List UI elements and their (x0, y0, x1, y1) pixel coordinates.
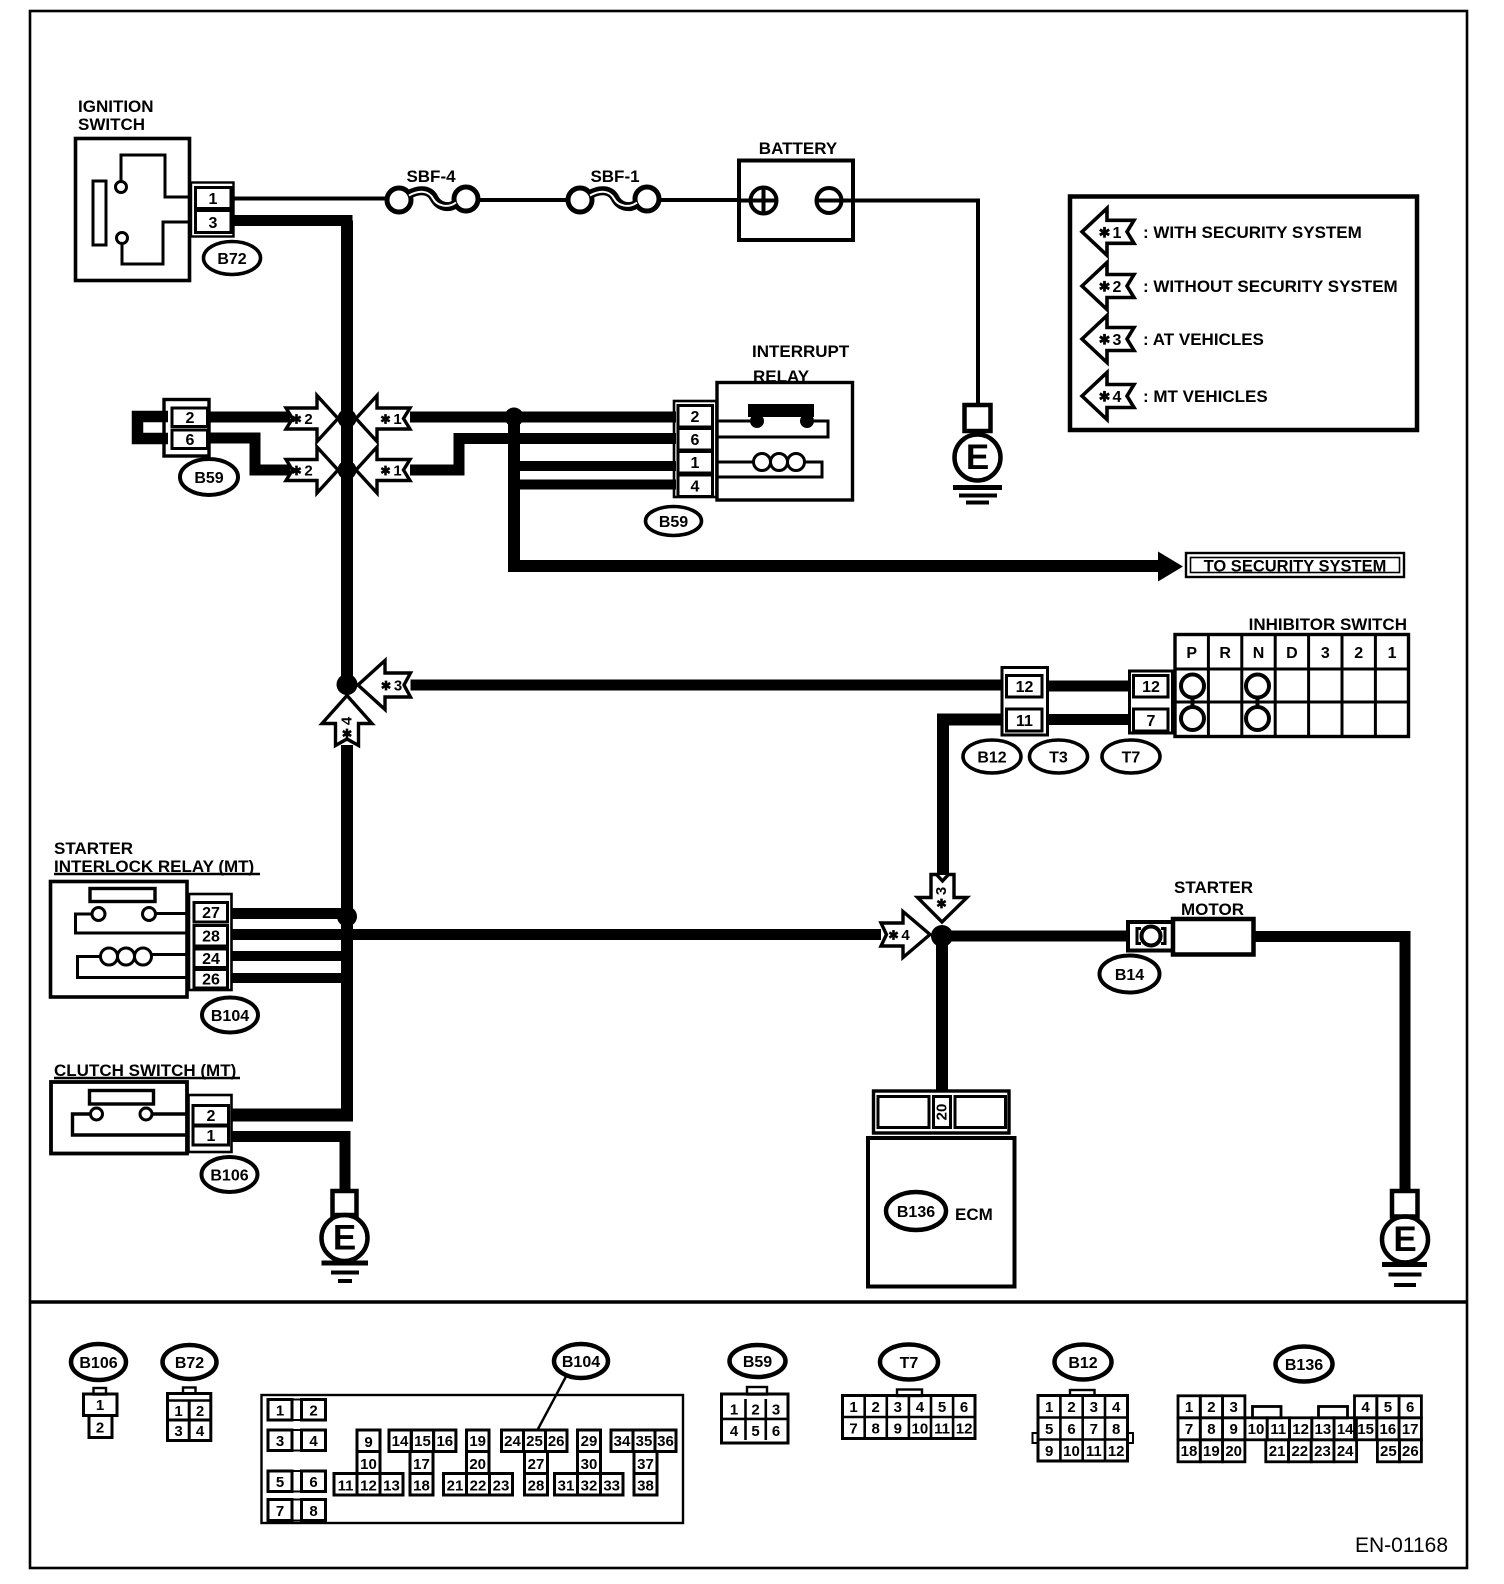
svg-text:2: 2 (1207, 1399, 1215, 1416)
B104 pins 5-6 (268, 1471, 326, 1492)
svg-text:11: 11 (1086, 1443, 1102, 1460)
svg-text:29: 29 (581, 1433, 598, 1450)
wire junction to starter motor (942, 931, 1128, 942)
svg-text:7: 7 (276, 1503, 284, 1520)
svg-text:B72: B72 (175, 1355, 204, 1372)
inhibitor contacts N column (1246, 675, 1269, 731)
svg-text:14: 14 (392, 1433, 409, 1450)
svg-text:4: 4 (1112, 1399, 1121, 1416)
svg-text:35: 35 (636, 1433, 653, 1450)
arrow *3 (at junction) (358, 661, 411, 710)
arrow *2 (lower) (286, 447, 338, 493)
svg-text:3: 3 (174, 1423, 182, 1440)
svg-text:31: 31 (558, 1478, 575, 1495)
svg-text:10: 10 (360, 1456, 377, 1473)
B106 oval (bottom) (71, 1344, 126, 1380)
B59 oval (interrupt relay) (646, 507, 702, 536)
B104 oval (202, 998, 258, 1033)
wire pin27 to main vertical (232, 908, 348, 919)
B104 cluster 14-18 (389, 1430, 456, 1495)
svg-text:E: E (1393, 1220, 1416, 1259)
svg-text:: WITHOUT SECURITY SYSTEM: : WITHOUT SECURITY SYSTEM (1143, 277, 1398, 296)
svg-text:13: 13 (1315, 1421, 1332, 1438)
wire to relay pin4 (514, 480, 676, 490)
wire ignition pin1 to fuse SBF-4 (234, 197, 389, 201)
junction node at security branch (505, 408, 524, 427)
svg-text:MOTOR: MOTOR (1181, 900, 1244, 919)
svg-text:EN-01168: EN-01168 (1355, 1534, 1448, 1557)
svg-text:B104: B104 (211, 1008, 249, 1025)
wire security branch vertical (508, 417, 520, 566)
arrow *1 (upper) (356, 396, 410, 442)
connector B59 loop stub (138, 417, 169, 439)
svg-text:12: 12 (360, 1478, 377, 1495)
svg-text:1: 1 (1388, 645, 1397, 662)
svg-text:1: 1 (691, 455, 700, 472)
svg-text:12: 12 (1016, 679, 1034, 696)
svg-text:14: 14 (1337, 1421, 1354, 1438)
svg-text:6: 6 (772, 1423, 780, 1440)
svg-text:3: 3 (1230, 1399, 1238, 1416)
B136 oval (886, 1192, 946, 1230)
svg-text:10: 10 (912, 1421, 929, 1438)
B12 oval (963, 740, 1021, 773)
ignition switch SW1 (76, 139, 190, 281)
svg-text:1: 1 (1113, 225, 1122, 242)
connector B72 pinout (168, 1388, 211, 1441)
B104 pins 3-4 (268, 1430, 326, 1451)
junction node (lower) (338, 461, 357, 480)
svg-text:BATTERY: BATTERY (759, 139, 838, 158)
svg-text:28: 28 (202, 929, 220, 946)
svg-text:6: 6 (960, 1399, 968, 1416)
svg-text:20: 20 (1225, 1443, 1242, 1460)
junction node *3/*4 (337, 674, 358, 695)
svg-text:1: 1 (1045, 1399, 1053, 1416)
svg-text:3: 3 (772, 1402, 780, 1419)
fusible link SBF-4 (387, 167, 478, 212)
svg-text:B12: B12 (977, 750, 1006, 767)
svg-text:37: 37 (637, 1456, 654, 1473)
svg-text:10: 10 (1248, 1421, 1265, 1438)
svg-text:1: 1 (849, 1399, 857, 1416)
B104 cluster 34-38 (611, 1430, 676, 1495)
connector T7 pinout (843, 1390, 976, 1439)
connector B104 pins 27/28/24/26 (189, 894, 232, 990)
svg-text:19: 19 (469, 1433, 486, 1450)
svg-text:20: 20 (934, 1104, 951, 1121)
svg-text:15: 15 (414, 1433, 431, 1450)
wire B12-12 to T7-12 (1048, 681, 1130, 692)
wire pin26 to main vertical (232, 973, 354, 983)
svg-text:8: 8 (1207, 1421, 1215, 1438)
svg-text:8: 8 (309, 1503, 317, 1520)
svg-text:36: 36 (657, 1433, 674, 1450)
ground E (main) (322, 1191, 369, 1281)
clutch switch SW3 (51, 1082, 187, 1154)
svg-text:25: 25 (526, 1433, 543, 1450)
svg-text:2: 2 (872, 1399, 880, 1416)
legend arrow *2 (1082, 263, 1134, 310)
svg-text:ECM: ECM (955, 1205, 993, 1224)
svg-text:9: 9 (1045, 1443, 1053, 1460)
svg-text:1: 1 (96, 1397, 104, 1414)
wire pin24 to main vertical (232, 951, 354, 961)
svg-text:5: 5 (938, 1399, 946, 1416)
svg-text:12: 12 (1292, 1421, 1309, 1438)
B106 oval (202, 1157, 258, 1192)
svg-text:3: 3 (394, 678, 402, 695)
svg-text:2: 2 (96, 1420, 104, 1437)
svg-text:5: 5 (276, 1474, 284, 1491)
svg-text:2: 2 (207, 1108, 216, 1125)
svg-text:2: 2 (1113, 279, 1122, 296)
B12 oval (bottom) (1055, 1345, 1112, 1380)
svg-text:INHIBITOR SWITCH: INHIBITOR SWITCH (1249, 615, 1407, 634)
wire B12-11 elbow down (943, 720, 1002, 876)
svg-text:B72: B72 (217, 251, 246, 268)
wire SBF-1 to battery (659, 198, 741, 202)
svg-text:SBF-1: SBF-1 (590, 167, 639, 186)
svg-text:B59: B59 (194, 470, 223, 487)
svg-text:SBF-4: SBF-4 (406, 167, 456, 186)
T7 oval (1102, 740, 1160, 773)
svg-text:19: 19 (1203, 1443, 1220, 1460)
ignition switch label (78, 97, 154, 134)
connector B12 pins 12/11 (1002, 668, 1048, 736)
wire SBF-4 to SBF-1 (478, 198, 569, 202)
legend arrow *1 (1082, 208, 1134, 255)
junction node pin27 (337, 907, 357, 927)
B136 oval (bottom) (1276, 1347, 1333, 1382)
starter motor label (1174, 878, 1253, 919)
svg-text:: AT VEHICLES: : AT VEHICLES (1143, 330, 1264, 349)
svg-text:7: 7 (849, 1421, 857, 1438)
svg-text:21: 21 (1269, 1443, 1286, 1460)
svg-text:: MT VEHICLES: : MT VEHICLES (1143, 387, 1268, 406)
svg-text:3: 3 (933, 887, 950, 895)
T3 oval (1030, 740, 1088, 773)
main vertical wire (MT path lower) (341, 745, 353, 1122)
svg-text:24: 24 (1337, 1443, 1354, 1460)
svg-text:B106: B106 (210, 1168, 248, 1185)
wire *3 to inhibitor connector (411, 680, 1004, 691)
svg-text:B106: B106 (79, 1355, 117, 1372)
clutch switch label (54, 1061, 240, 1080)
svg-text:10: 10 (1063, 1443, 1080, 1460)
svg-text:18: 18 (413, 1478, 430, 1495)
svg-text:4: 4 (339, 716, 356, 725)
svg-text:24: 24 (202, 951, 220, 968)
main vertical wire (341, 221, 353, 685)
svg-text:1: 1 (730, 1402, 738, 1419)
ground E (starter) (1382, 1191, 1428, 1285)
svg-text:26: 26 (1402, 1443, 1419, 1460)
svg-text:1: 1 (207, 1128, 216, 1145)
B104 cluster 29-33 (555, 1430, 624, 1495)
svg-text:E: E (966, 438, 989, 477)
svg-text:TO SECURITY SYSTEM: TO SECURITY SYSTEM (1204, 558, 1387, 576)
svg-text:6: 6 (186, 432, 195, 449)
connector B106 pinout (84, 1388, 118, 1438)
svg-text:1: 1 (393, 463, 401, 480)
connector B12 pinout (1033, 1390, 1134, 1461)
svg-text:3: 3 (894, 1399, 902, 1416)
legend arrow *3 (1082, 316, 1134, 363)
svg-text:17: 17 (1402, 1421, 1419, 1438)
wire ignition pin3 elbow (234, 221, 348, 227)
svg-text:2: 2 (196, 1403, 204, 1420)
svg-text:1: 1 (393, 411, 401, 428)
B72 oval (bottom) (163, 1345, 217, 1379)
svg-text:38: 38 (637, 1478, 654, 1495)
B104 pins 1-2 (268, 1400, 326, 1421)
wire starter motor to ground (1254, 937, 1406, 1192)
connector B136 pinout left block (1178, 1396, 1245, 1462)
interrupt relay RY1 (717, 383, 853, 501)
svg-text:4: 4 (1361, 1399, 1370, 1416)
svg-text:21: 21 (447, 1478, 464, 1495)
svg-text:28: 28 (528, 1478, 545, 1495)
svg-text:B59: B59 (659, 514, 688, 531)
wire clutch pin2 to main vertical (232, 1109, 354, 1122)
svg-text:26: 26 (202, 972, 220, 989)
svg-text:INTERRUPT: INTERRUPT (752, 342, 850, 361)
svg-text:2: 2 (309, 1403, 317, 1420)
junction node (upper) (338, 409, 357, 428)
svg-text:7: 7 (1090, 1421, 1098, 1438)
svg-text:7: 7 (1185, 1421, 1193, 1438)
svg-text:T7: T7 (900, 1355, 919, 1372)
svg-text:3: 3 (276, 1433, 284, 1450)
svg-text:4: 4 (691, 479, 700, 496)
svg-text:33: 33 (603, 1478, 620, 1495)
connector B106 pins 2/1 (189, 1095, 232, 1152)
svg-text:2: 2 (186, 410, 195, 427)
svg-text:5: 5 (1384, 1399, 1392, 1416)
wire B59 pin2 to junction (209, 412, 290, 423)
connector B72 pins 1/3 (191, 183, 234, 237)
svg-text:5: 5 (1045, 1421, 1053, 1438)
svg-text:16: 16 (436, 1433, 453, 1450)
T7 oval (bottom) (880, 1345, 938, 1380)
B59 oval (left) (180, 459, 238, 495)
svg-text:4: 4 (309, 1433, 318, 1450)
ECM box (868, 1138, 1015, 1287)
svg-text:2: 2 (1354, 645, 1363, 662)
svg-text:8: 8 (872, 1421, 880, 1438)
connector B136 pinout right block (1355, 1396, 1422, 1462)
svg-text:24: 24 (504, 1433, 521, 1450)
svg-text:B12: B12 (1068, 1355, 1097, 1372)
B104 cluster 19-23 (444, 1430, 513, 1495)
svg-text:32: 32 (581, 1478, 598, 1495)
connector B136 pinout middle block (1245, 1407, 1357, 1462)
svg-text:B136: B136 (1285, 1357, 1323, 1374)
svg-text:27: 27 (528, 1456, 545, 1473)
inhibitor switch SW2 table (1175, 635, 1409, 737)
starter motor M1 (1128, 919, 1254, 955)
svg-text:12: 12 (1142, 679, 1160, 696)
wire clutch pin1 to ground (232, 1137, 346, 1192)
B104 pointer line (538, 1377, 566, 1430)
battery BAT (739, 161, 853, 241)
svg-text:8: 8 (1112, 1421, 1120, 1438)
B59 oval (bottom) (730, 1345, 786, 1377)
svg-text:20: 20 (469, 1456, 486, 1473)
connector B59 pins 2/6/1/4 (interrupt relay) (674, 401, 717, 497)
svg-text:5: 5 (751, 1423, 759, 1440)
connector B59 pins 2/6 (164, 400, 209, 457)
wire upper *1 to relay pin2 (410, 412, 676, 423)
ECM connector pin 20 (874, 1091, 1010, 1133)
wire lower *1 to relay pin6 (410, 439, 676, 471)
svg-text:13: 13 (383, 1478, 400, 1495)
svg-text:6: 6 (309, 1474, 317, 1491)
svg-text:IGNITION: IGNITION (78, 97, 154, 116)
svg-text:6: 6 (1067, 1421, 1075, 1438)
svg-text:3: 3 (1090, 1399, 1098, 1416)
svg-text:3: 3 (1113, 332, 1122, 349)
svg-text:17: 17 (413, 1456, 430, 1473)
svg-text:T7: T7 (1122, 750, 1141, 767)
security arrow head (1158, 552, 1183, 582)
arrow *1 (lower) (356, 447, 410, 493)
svg-text:1: 1 (276, 1403, 284, 1420)
B104 cluster 9-13 (334, 1430, 403, 1495)
wire junction to ECM pin20 (936, 936, 948, 1091)
wire pin28 to *4 arrow (starter) (232, 929, 882, 940)
svg-text:3: 3 (209, 215, 218, 232)
svg-text:: WITH SECURITY SYSTEM: : WITH SECURITY SYSTEM (1143, 223, 1362, 242)
fusible link SBF-1 (568, 167, 659, 212)
svg-text:N: N (1253, 645, 1265, 662)
svg-text:B136: B136 (897, 1204, 935, 1221)
svg-text:22: 22 (470, 1478, 487, 1495)
arrow *4 (right, MT path) (881, 912, 930, 958)
arrow *2 (upper) (286, 396, 338, 442)
svg-text:6: 6 (1406, 1399, 1414, 1416)
svg-text:7: 7 (1147, 713, 1156, 730)
svg-text:18: 18 (1181, 1443, 1198, 1460)
svg-text:6: 6 (691, 432, 700, 449)
svg-text:11: 11 (1016, 713, 1033, 730)
svg-text:2: 2 (751, 1402, 759, 1419)
svg-text:B104: B104 (562, 1354, 600, 1371)
svg-text:16: 16 (1380, 1421, 1397, 1438)
svg-text:11: 11 (338, 1478, 354, 1495)
svg-text:1: 1 (174, 1403, 182, 1420)
svg-text:3: 3 (1321, 645, 1330, 662)
inhibitor contacts P column (1181, 675, 1204, 731)
svg-text:SWITCH: SWITCH (78, 115, 145, 134)
svg-text:25: 25 (1380, 1443, 1397, 1460)
ground E (battery) (953, 405, 1002, 503)
svg-text:4: 4 (901, 927, 910, 944)
svg-text:11: 11 (1270, 1421, 1286, 1438)
legend arrow *4 (1082, 373, 1134, 420)
starter interlock relay label (54, 839, 260, 876)
interrupt relay label (752, 342, 850, 386)
svg-text:2: 2 (304, 411, 312, 428)
connector B59 pinout (722, 1387, 789, 1443)
to security system box (1186, 553, 1404, 577)
svg-text:D: D (1286, 645, 1298, 662)
starter interlock relay RY2 (51, 882, 188, 998)
svg-text:23: 23 (493, 1478, 510, 1495)
svg-text:P: P (1186, 645, 1197, 662)
arrow *4 (up, MT path) (322, 696, 372, 746)
svg-text:9: 9 (1230, 1421, 1238, 1438)
svg-text:2: 2 (304, 463, 312, 480)
svg-text:30: 30 (581, 1456, 598, 1473)
svg-text:B59: B59 (743, 1354, 772, 1371)
B104 oval (bottom) (554, 1344, 608, 1378)
svg-text:22: 22 (1291, 1443, 1308, 1460)
svg-text:STARTER: STARTER (1174, 878, 1253, 897)
legend box (1070, 197, 1417, 431)
svg-text:T3: T3 (1049, 750, 1068, 767)
B14 oval (1100, 956, 1160, 993)
divider line (30, 1300, 1467, 1303)
svg-text:9: 9 (364, 1434, 372, 1451)
B72 oval (204, 242, 261, 275)
connector T7 pins 12/7 (1130, 671, 1173, 733)
wire to security system (508, 560, 1159, 572)
svg-text:9: 9 (894, 1421, 902, 1438)
svg-text:4: 4 (730, 1423, 739, 1440)
wire B12-11 to T7-7 (1048, 714, 1130, 725)
svg-text:12: 12 (956, 1421, 973, 1438)
svg-text:12: 12 (1108, 1443, 1125, 1460)
connector B104 pinout box (262, 1395, 684, 1523)
B104 pins 7-8 (268, 1500, 326, 1521)
svg-text:26: 26 (548, 1433, 565, 1450)
svg-text:B14: B14 (1115, 967, 1144, 984)
svg-text:2: 2 (691, 409, 700, 426)
svg-text:15: 15 (1357, 1421, 1374, 1438)
svg-text:4: 4 (196, 1423, 205, 1440)
svg-text:1: 1 (1185, 1399, 1193, 1416)
wire B59 pin6 to lower junction (209, 438, 290, 470)
svg-text:4: 4 (916, 1399, 925, 1416)
svg-text:1: 1 (209, 191, 218, 208)
B104 cluster 24-28 (502, 1430, 568, 1495)
svg-text:4: 4 (1113, 389, 1122, 406)
arrow *3 (down, AT path) (918, 875, 968, 923)
svg-text:E: E (333, 1219, 356, 1258)
svg-text:27: 27 (202, 905, 220, 922)
wire to relay pin1 (514, 461, 676, 471)
svg-text:23: 23 (1314, 1443, 1331, 1460)
svg-text:STARTER: STARTER (54, 839, 133, 858)
junction node starter (931, 925, 953, 947)
svg-text:34: 34 (614, 1433, 631, 1450)
svg-text:11: 11 (934, 1421, 950, 1438)
svg-text:2: 2 (1067, 1399, 1075, 1416)
svg-text:R: R (1219, 645, 1231, 662)
wire battery to ground (853, 201, 978, 406)
